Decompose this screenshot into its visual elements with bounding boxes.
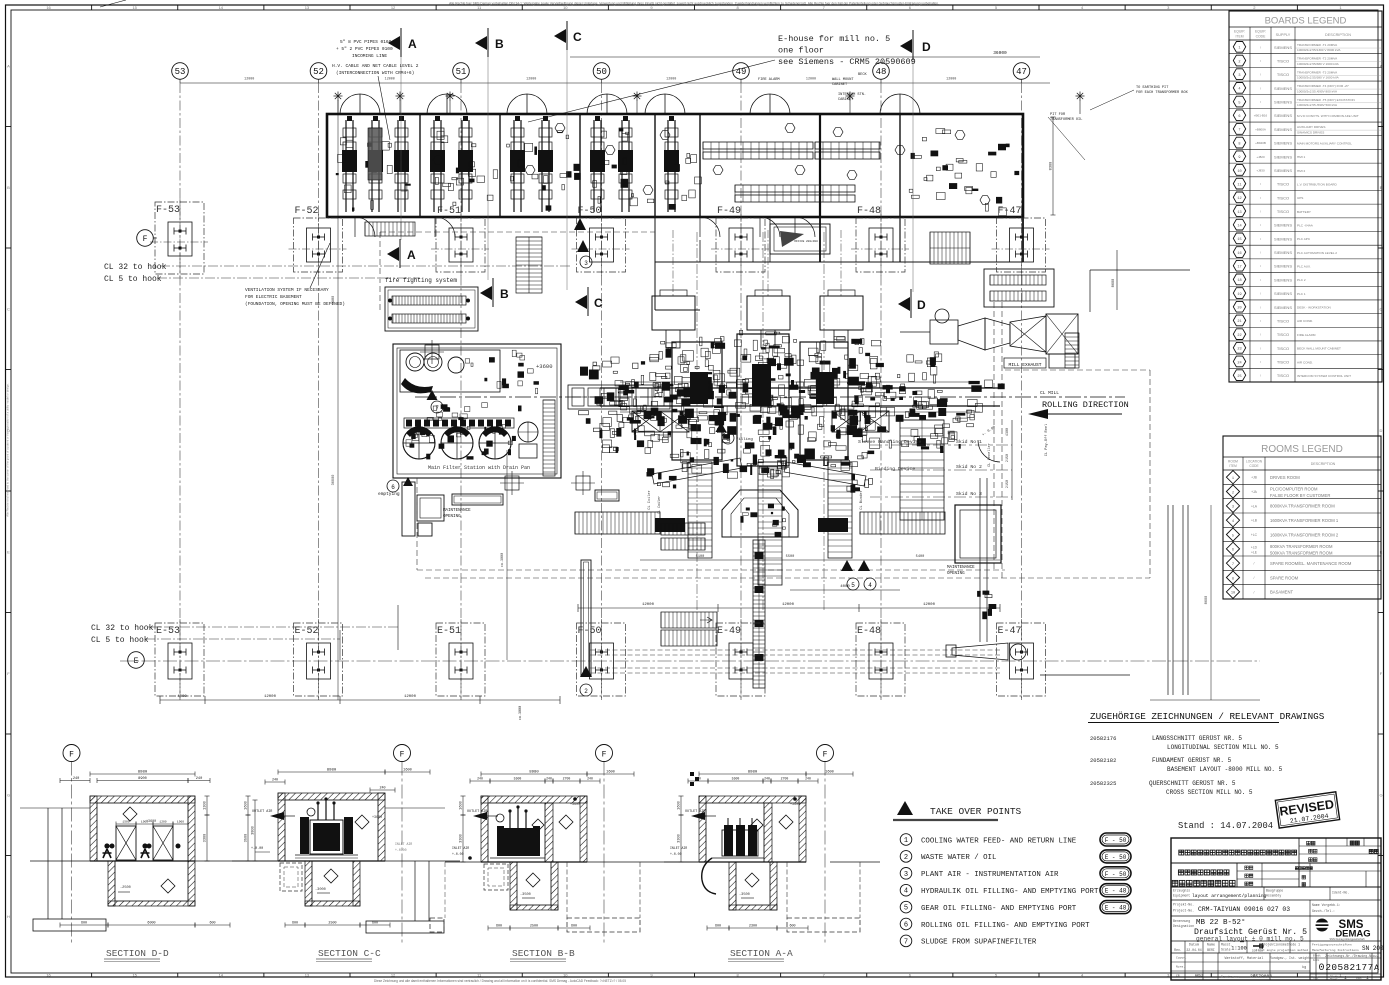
svg-text:E-52: E-52 bbox=[295, 626, 319, 637]
svg-text:Zeichnungs-Nr./Drawing-No.: Zeichnungs-Nr./Drawing-No. bbox=[1325, 954, 1375, 958]
svg-text:2500: 2500 bbox=[530, 925, 538, 929]
svg-text:4: 4 bbox=[868, 582, 872, 589]
svg-text:Norm.: Norm. bbox=[1176, 966, 1185, 969]
section B-B duct dashed bbox=[484, 864, 508, 890]
svg-text:F-49: F-49 bbox=[717, 206, 741, 217]
svg-text:8: 8 bbox=[1232, 577, 1234, 581]
svg-text:2300: 2300 bbox=[749, 925, 757, 929]
take over point row 6 bbox=[900, 918, 1090, 930]
svg-text:+JA: +JA bbox=[1251, 490, 1258, 494]
svg-text:2150: 2150 bbox=[1006, 480, 1010, 488]
svg-text:/: / bbox=[1254, 590, 1255, 594]
svg-text:15: 15 bbox=[1237, 238, 1241, 242]
svg-text:TRANSFORMER -T4 (DRY) FOR -Z7: TRANSFORMER -T4 (DRY) FOR -Z7 bbox=[1297, 84, 1349, 88]
pit note 2 bbox=[1090, 86, 1189, 110]
section B-B caption bbox=[510, 948, 575, 962]
svg-text:PIT FOR: PIT FOR bbox=[1050, 113, 1066, 117]
svg-text:6: 6 bbox=[391, 484, 395, 491]
svg-text:8980: 8980 bbox=[327, 769, 337, 773]
svg-text:C: C bbox=[7, 306, 10, 311]
filter small pump bbox=[518, 422, 538, 458]
section marker B mid bbox=[480, 278, 509, 307]
svg-text:COOLING WATER FEED- AND RETURN: COOLING WATER FEED- AND RETURN LINE bbox=[921, 837, 1077, 845]
svg-text:+-0.00: +-0.00 bbox=[452, 852, 464, 856]
mill stand 1 cluster bbox=[655, 337, 730, 474]
section D-D pit bbox=[108, 861, 195, 906]
section marker C top bbox=[554, 21, 582, 50]
overall dimension line 36000 bbox=[570, 50, 1040, 57]
svg-text:AUXILIARY DRIVES: AUXILIARY DRIVES bbox=[1297, 125, 1325, 129]
svg-text:500KVA TRANSFORMER ROOM: 500KVA TRANSFORMER ROOM bbox=[1270, 550, 1333, 555]
payoff reel group bbox=[579, 362, 661, 438]
svg-text:10: 10 bbox=[1231, 592, 1235, 596]
svg-text:Skid No 3: Skid No 3 bbox=[956, 491, 982, 497]
e-house outer walls bbox=[327, 114, 1023, 217]
fold mark top left bbox=[100, 0, 126, 7]
svg-text:20582325: 20582325 bbox=[1090, 780, 1116, 787]
svg-text:7: 7 bbox=[435, 405, 439, 412]
svg-text:6: 6 bbox=[726, 436, 730, 443]
section marker A top bbox=[388, 28, 417, 57]
svg-text:SIEMENS: SIEMENS bbox=[1274, 236, 1292, 241]
svg-text:Scale: Scale bbox=[1221, 948, 1231, 952]
svg-text:12000: 12000 bbox=[946, 78, 956, 82]
foundation F-47 row1 bbox=[992, 206, 1050, 276]
boards legend table bbox=[1229, 11, 1382, 382]
svg-text:2150: 2150 bbox=[1006, 454, 1010, 462]
svg-text:600: 600 bbox=[715, 925, 721, 929]
svg-text:Alle Rechte sind reserved to t: Alle Rechte sind reserved to the owner o… bbox=[6, 383, 10, 517]
svg-text:OFFICE 200x300: OFFICE 200x300 bbox=[794, 240, 818, 243]
coil removal equipment right bbox=[946, 643, 1130, 675]
stand date bbox=[1178, 821, 1273, 831]
svg-text:general layout ± 0 mill no. 5: general layout ± 0 mill no. 5 bbox=[1196, 936, 1304, 943]
designation row bbox=[1171, 916, 1381, 943]
grid axis line 50 bbox=[601, 83, 603, 700]
svg-text:CL 32 to hook: CL 32 to hook bbox=[104, 263, 167, 272]
svg-text:SIEMENS: SIEMENS bbox=[1274, 141, 1292, 146]
svg-text:D: D bbox=[922, 40, 931, 54]
vertical dim 8600 right bbox=[1112, 250, 1117, 310]
svg-text:5500: 5500 bbox=[786, 555, 795, 559]
bottom microtext bbox=[374, 979, 626, 983]
svg-text:6: 6 bbox=[904, 922, 908, 930]
row2 center line bbox=[120, 660, 1260, 662]
svg-text:1: 1 bbox=[1366, 975, 1369, 981]
svg-text:emptying: emptying bbox=[378, 491, 400, 497]
svg-text:8: 8 bbox=[1238, 142, 1240, 146]
svg-text:51: 51 bbox=[456, 67, 467, 77]
svg-text:H.V. CABLE AND NET CABLE LEVEL: H.V. CABLE AND NET CABLE LEVEL 2 bbox=[332, 63, 419, 69]
svg-text:B: B bbox=[7, 185, 10, 190]
svg-text:BASAMENT: BASAMENT bbox=[1270, 590, 1293, 595]
svg-text:BECK WALL MOUNT CABINET: BECK WALL MOUNT CABINET bbox=[1297, 347, 1341, 351]
svg-text:Alle Rechte fuer SMS Demag vor: Alle Rechte fuer SMS Demag vorbehalten D… bbox=[449, 2, 939, 6]
erstatz row bbox=[1221, 974, 1272, 980]
svg-text:F-50: F-50 bbox=[578, 626, 602, 637]
svg-text:4000: 4000 bbox=[840, 585, 850, 589]
svg-text:TRANSFORMER -T2 20MVA: TRANSFORMER -T2 20MVA bbox=[1297, 57, 1338, 61]
svg-text:8600: 8600 bbox=[1112, 279, 1116, 288]
svg-text:SIEMENS: SIEMENS bbox=[1274, 45, 1292, 50]
small door arcs inside building bottom bbox=[355, 217, 815, 237]
section C-C air labels bbox=[251, 810, 412, 852]
svg-text:1600: 1600 bbox=[245, 801, 249, 810]
svg-text:12000: 12000 bbox=[244, 78, 254, 82]
svg-text:TISCO: TISCO bbox=[1277, 332, 1289, 337]
pvc pipes note bbox=[332, 39, 419, 140]
take over point row 7 bbox=[900, 935, 1037, 947]
svg-text:E-51: E-51 bbox=[437, 626, 461, 637]
svg-text:SIEMENS: SIEMENS bbox=[1274, 291, 1292, 296]
svg-text:16: 16 bbox=[1237, 252, 1241, 256]
svg-text:Fertigungsvorschriften: Fertigungsvorschriften bbox=[1312, 943, 1352, 947]
svg-text:12000: 12000 bbox=[642, 603, 655, 607]
svg-text:16: 16 bbox=[46, 973, 51, 978]
svg-text:SIEMENS: SIEMENS bbox=[1274, 250, 1292, 255]
coiler CL labels bbox=[647, 424, 1049, 510]
svg-text:DESK - WORKSTATION: DESK - WORKSTATION bbox=[1297, 306, 1331, 310]
svg-text:8900: 8900 bbox=[138, 777, 147, 781]
left border microtext bbox=[6, 383, 10, 517]
svg-text:48: 48 bbox=[876, 67, 887, 77]
svg-text:GEAR OIL FILLING- AND EMPTYING: GEAR OIL FILLING- AND EMPTYING PORT bbox=[921, 905, 1077, 913]
plc room equipment bbox=[909, 129, 1019, 216]
svg-text:TO EARTHING PIT: TO EARTHING PIT bbox=[1136, 86, 1169, 90]
section A-A hose bbox=[702, 858, 716, 894]
svg-text:C: C bbox=[573, 30, 582, 44]
svg-text:Designation: Designation bbox=[1173, 924, 1194, 928]
svg-text:F-47: F-47 bbox=[998, 206, 1022, 217]
svg-text:8980: 8980 bbox=[332, 296, 336, 305]
svg-text:/: / bbox=[1254, 562, 1255, 566]
transformer bay equipment T1 bbox=[336, 116, 411, 212]
section A-A air labels bbox=[670, 810, 716, 856]
section B-B room bbox=[445, 796, 699, 862]
svg-text:E: E bbox=[7, 549, 10, 554]
svg-text:SECTION C-C: SECTION C-C bbox=[318, 948, 381, 959]
svg-text:UPS: UPS bbox=[1297, 196, 1303, 200]
svg-text:Rev.: Rev. bbox=[1174, 948, 1182, 952]
transformer bay equipment T3 bbox=[507, 116, 581, 212]
svg-text:20582182: 20582182 bbox=[1090, 757, 1116, 764]
svg-text:CROSS SECTION MILL NO. 5: CROSS SECTION MILL NO. 5 bbox=[1166, 789, 1253, 796]
svg-text:CL 5 to hook: CL 5 to hook bbox=[91, 636, 149, 645]
svg-text:D: D bbox=[917, 298, 926, 312]
svg-text:+LE: +LE bbox=[1251, 550, 1258, 554]
svg-text:layout arrangement/planning: layout arrangement/planning bbox=[1192, 893, 1267, 899]
svg-text:H: H bbox=[7, 914, 10, 919]
section marker B top bbox=[475, 28, 504, 57]
foundation E-49 row2 bbox=[716, 619, 765, 700]
filter station caption bbox=[428, 465, 530, 471]
mill spine band bbox=[610, 378, 1005, 426]
rooms legend table bbox=[1223, 436, 1381, 599]
svg-text:VENTILATION SYSTEM IF NECESSAR: VENTILATION SYSTEM IF NECESSARY bbox=[245, 287, 329, 293]
svg-text:6: 6 bbox=[1232, 549, 1234, 553]
mill side equipment right bbox=[873, 352, 974, 453]
svg-text:15: 15 bbox=[132, 5, 137, 10]
upper stairs mid bbox=[661, 523, 705, 550]
svg-text:+3600: +3600 bbox=[536, 363, 553, 370]
svg-text:SIEMENS: SIEMENS bbox=[1274, 113, 1292, 118]
hv incoming shaded duct bbox=[368, 128, 382, 180]
svg-text:-240: -240 bbox=[71, 777, 80, 781]
svg-text:+-0.00: +-0.00 bbox=[395, 848, 407, 852]
section A-A caption bbox=[728, 948, 793, 962]
svg-text:Name: Name bbox=[1207, 944, 1215, 948]
svg-text:12: 12 bbox=[391, 973, 396, 978]
hex item symbols in e-house bbox=[433, 124, 990, 205]
svg-text:3500: 3500 bbox=[245, 834, 249, 843]
svg-text:47: 47 bbox=[1016, 67, 1027, 77]
filter tanks bbox=[403, 403, 522, 459]
section marker D mid bbox=[898, 289, 926, 318]
lower stairs mid bbox=[661, 612, 717, 646]
svg-text:MILL EXHAUST: MILL EXHAUST bbox=[1008, 362, 1041, 368]
svg-text:Baugruppe: Baugruppe bbox=[1266, 889, 1283, 893]
svg-text:12000: 12000 bbox=[264, 695, 277, 699]
svg-text:Datum: Datum bbox=[1189, 944, 1199, 948]
section A-A room bbox=[664, 796, 880, 862]
svg-text:-3500: -3500 bbox=[520, 893, 531, 897]
svg-text:SECTION D-D: SECTION D-D bbox=[106, 948, 169, 959]
grid axis line 51 bbox=[460, 83, 462, 700]
svg-text:240: 240 bbox=[379, 787, 385, 791]
svg-text:E-47: E-47 bbox=[998, 626, 1022, 637]
svg-text:4000: 4000 bbox=[177, 695, 187, 699]
svg-text:12000: 12000 bbox=[526, 78, 536, 82]
svg-text:ITEM: ITEM bbox=[1235, 35, 1243, 39]
mill side equipment left bbox=[601, 354, 659, 453]
svg-text:von: von bbox=[1356, 977, 1362, 980]
svg-text:8600: 8600 bbox=[1205, 596, 1209, 605]
svg-text:see Siemens - CRM5 20590609: see Siemens - CRM5 20590609 bbox=[778, 57, 916, 67]
svg-text:SECTION A-A: SECTION A-A bbox=[730, 948, 793, 959]
svg-text:ROOMS LEGEND: ROOMS LEGEND bbox=[1261, 444, 1343, 455]
svg-text:TISCO: TISCO bbox=[1277, 318, 1289, 323]
svg-text:TISCO: TISCO bbox=[1277, 359, 1289, 364]
section C-C footing right bbox=[366, 808, 445, 933]
svg-text:A: A bbox=[7, 63, 10, 68]
section A-A pit bbox=[729, 862, 777, 910]
svg-text:5" 8 PVC PIPES 0160: 5" 8 PVC PIPES 0160 bbox=[340, 39, 392, 45]
grid axis circle 52 bbox=[310, 63, 327, 83]
section B-B air labels bbox=[452, 810, 498, 860]
svg-text:17: 17 bbox=[1237, 266, 1241, 270]
svg-text:25: 25 bbox=[1237, 375, 1241, 379]
svg-text:+B800A: +B800A bbox=[1255, 127, 1266, 131]
take over point row 3 bbox=[900, 867, 1131, 880]
svg-text:8300: 8300 bbox=[1050, 162, 1054, 171]
svg-text:1600KVA TRANSFORMER ROOM 2: 1600KVA TRANSFORMER ROOM 2 bbox=[1270, 532, 1339, 537]
svg-text:3300: 3300 bbox=[204, 834, 208, 843]
svg-text:CRM-TAIYUAN 09016 027 03: CRM-TAIYUAN 09016 027 03 bbox=[1198, 906, 1290, 913]
svg-text:-3000: -3000 bbox=[315, 888, 326, 892]
svg-text:240: 240 bbox=[272, 779, 278, 783]
CL hook lines upper bbox=[104, 263, 570, 284]
svg-text:G: G bbox=[1379, 792, 1382, 797]
svg-text:F: F bbox=[400, 751, 405, 760]
take over points heading bbox=[893, 801, 1022, 820]
svg-text:ca.3000: ca.3000 bbox=[519, 706, 523, 720]
svg-text:CR: CR bbox=[1176, 975, 1180, 978]
office box bbox=[770, 224, 830, 254]
svg-text:CL 32 to hook: CL 32 to hook bbox=[91, 624, 154, 633]
section D-D pit dims bbox=[60, 922, 230, 928]
vertical dim x338 bbox=[332, 100, 338, 700]
take over point 6 fill bbox=[716, 422, 754, 444]
svg-text:BERI: BERI bbox=[1207, 948, 1215, 952]
svg-text:EQUIP.: EQUIP. bbox=[1255, 30, 1266, 34]
svg-text:MAIN MOTORS AUXILIARY CONTROL: MAIN MOTORS AUXILIARY CONTROL bbox=[1297, 141, 1352, 145]
svg-text:+3600: +3600 bbox=[372, 816, 382, 820]
svg-text:3: 3 bbox=[1232, 506, 1234, 510]
double dash conveyor lines row2 bbox=[590, 650, 1000, 673]
thin pipe x585 bbox=[580, 560, 592, 696]
plant boundary dashes bbox=[380, 232, 1150, 578]
svg-text:5: 5 bbox=[1232, 534, 1234, 538]
svg-text:ca.3000: ca.3000 bbox=[501, 553, 505, 567]
project row bbox=[1171, 900, 1381, 916]
svg-text:SPARE ROOM/EL. MAINTENANCE ROO: SPARE ROOM/EL. MAINTENANCE ROOM bbox=[1270, 561, 1352, 566]
entry roller table bbox=[568, 385, 670, 409]
switchgear room equipment bbox=[703, 142, 880, 202]
svg-text:Ersatz aus: Ersatz aus bbox=[1221, 976, 1239, 979]
svg-text:SINAMICS DRIVES: SINAMICS DRIVES bbox=[1297, 130, 1324, 134]
svg-text:4: 4 bbox=[1238, 88, 1240, 92]
conveyors beside octagon bbox=[575, 512, 945, 534]
title block frame bbox=[1171, 838, 1381, 980]
svg-text:2500: 2500 bbox=[328, 922, 336, 926]
take over point row 2 bbox=[900, 850, 1131, 863]
foundation F-51 row1 bbox=[431, 206, 489, 276]
small rect pads bbox=[452, 490, 619, 505]
svg-text:INLET AIR: INLET AIR bbox=[395, 842, 412, 846]
svg-text:15: 15 bbox=[132, 973, 137, 978]
svg-text:TISCO: TISCO bbox=[1277, 182, 1289, 187]
material row bbox=[1171, 953, 1381, 981]
svg-text:16: 16 bbox=[46, 5, 51, 10]
svg-text:20582177: 20582177 bbox=[1325, 962, 1373, 973]
svg-text:5500: 5500 bbox=[514, 777, 522, 781]
svg-text:Main Filter Station with Drain: Main Filter Station with Drain Pan bbox=[428, 465, 530, 471]
svg-text:11: 11 bbox=[1237, 183, 1241, 187]
vertical dim right x1211 bbox=[1150, 505, 1260, 700]
svg-text:600: 600 bbox=[372, 922, 378, 926]
svg-text:TRANSFORMER OIL: TRANSFORMER OIL bbox=[1050, 118, 1082, 122]
svg-text:SECTION B-B: SECTION B-B bbox=[512, 948, 575, 959]
take over point 7 bbox=[427, 390, 444, 413]
svg-text:Project-No.: Project-No. bbox=[1173, 909, 1194, 913]
svg-text:22.04.04: 22.04.04 bbox=[1186, 948, 1201, 952]
svg-text:CABINET: CABINET bbox=[832, 83, 848, 87]
title company band bbox=[1171, 863, 1381, 887]
svg-text:5: 5 bbox=[1238, 101, 1240, 105]
svg-text:CABINET: CABINET bbox=[838, 98, 854, 102]
svg-text:9: 9 bbox=[1238, 156, 1240, 160]
mill center black core bbox=[690, 364, 834, 406]
foundation E-47 row2 bbox=[997, 619, 1046, 700]
svg-text:MAINTENANCE: MAINTENANCE bbox=[443, 509, 471, 513]
svg-text:FIRE ALARM: FIRE ALARM bbox=[758, 78, 780, 82]
svg-text:7: 7 bbox=[904, 938, 908, 946]
section marker A mid bbox=[387, 239, 416, 268]
svg-text:CODE: CODE bbox=[1256, 35, 1267, 39]
svg-text:10: 10 bbox=[563, 5, 568, 10]
take over point 6 emptying bbox=[378, 477, 413, 497]
svg-text:F-50: F-50 bbox=[578, 206, 602, 217]
svg-text:fire fighting system: fire fighting system bbox=[385, 277, 457, 284]
svg-text:OPENING: OPENING bbox=[443, 515, 461, 519]
section D-D dims top bbox=[60, 771, 210, 862]
svg-text:12000: 12000 bbox=[666, 78, 676, 82]
svg-text:G: G bbox=[7, 792, 10, 797]
take over point row 1 bbox=[900, 833, 1131, 846]
svg-text:Skid No 2: Skid No 2 bbox=[956, 464, 982, 470]
triangle marks near f50 bbox=[574, 218, 592, 268]
grid axis circle 47 bbox=[1013, 63, 1030, 83]
svg-text:8980: 8980 bbox=[529, 771, 539, 775]
svg-text:19: 19 bbox=[1237, 293, 1241, 297]
svg-text:TRANSFORMER -T3 20MVA: TRANSFORMER -T3 20MVA bbox=[1297, 70, 1338, 74]
vertical pipes right bbox=[1168, 505, 1188, 695]
svg-text:B: B bbox=[495, 37, 504, 51]
svg-text:Rundgew., Ist. weight: Rundgew., Ist. weight bbox=[1270, 956, 1310, 960]
svg-text:BOARDS LEGEND: BOARDS LEGEND bbox=[1265, 16, 1347, 27]
svg-text:21: 21 bbox=[1237, 320, 1241, 324]
mill center line bbox=[415, 396, 1125, 398]
svg-text:240: 240 bbox=[477, 777, 483, 781]
svg-text:PLC AUTOMATION LEVEL 2: PLC AUTOMATION LEVEL 2 bbox=[1297, 251, 1337, 255]
svg-text:10: 10 bbox=[563, 973, 568, 978]
section A-A axis F bbox=[817, 745, 834, 946]
svg-text:TISCO: TISCO bbox=[1277, 209, 1289, 214]
vertical dim x507 bbox=[501, 450, 507, 660]
svg-text:5100: 5100 bbox=[696, 555, 705, 559]
svg-text:13: 13 bbox=[305, 5, 310, 10]
svg-text:1200: 1200 bbox=[159, 821, 166, 824]
svg-text:24: 24 bbox=[1237, 361, 1241, 365]
svg-text:F: F bbox=[823, 751, 828, 760]
svg-text:1960: 1960 bbox=[177, 821, 184, 824]
svg-text:F-51: F-51 bbox=[437, 206, 461, 217]
svg-text:13: 13 bbox=[305, 973, 310, 978]
svg-text:1600: 1600 bbox=[460, 801, 464, 810]
svg-text:FOR ELECTRIC BASEMENT: FOR ELECTRIC BASEMENT bbox=[245, 294, 302, 300]
svg-text:4300: 4300 bbox=[1006, 428, 1010, 436]
svg-text:2: 2 bbox=[584, 688, 588, 695]
CL hook lines lower bbox=[91, 605, 400, 660]
svg-text:CL Pay-Off Reel: CL Pay-Off Reel bbox=[1044, 424, 1049, 456]
grid axis line 52 bbox=[318, 83, 320, 700]
wall mount cabinet notes bbox=[758, 73, 867, 102]
svg-text:BASEMENT LAYOUT -8000 MILL NO.: BASEMENT LAYOUT -8000 MILL NO. 5 bbox=[1167, 766, 1283, 773]
section C-C room bbox=[232, 793, 460, 861]
svg-text:23: 23 bbox=[1237, 348, 1241, 352]
svg-text:+LB: +LB bbox=[1251, 519, 1258, 523]
section D-D footing left bbox=[20, 808, 106, 931]
dims below mill bbox=[640, 496, 1000, 560]
svg-text:C: C bbox=[594, 296, 603, 310]
svg-text:SIEMENS: SIEMENS bbox=[1274, 223, 1292, 228]
exhaust connection lines bbox=[900, 270, 1190, 332]
take over points 5 4 bbox=[841, 560, 876, 590]
svg-text:Projektionsmethode 1: Projektionsmethode 1 bbox=[1262, 943, 1300, 947]
svg-text:52: 52 bbox=[313, 67, 324, 77]
foundation E-52 row2 bbox=[294, 619, 343, 700]
svg-text:DESCRIPTION: DESCRIPTION bbox=[1311, 462, 1336, 466]
